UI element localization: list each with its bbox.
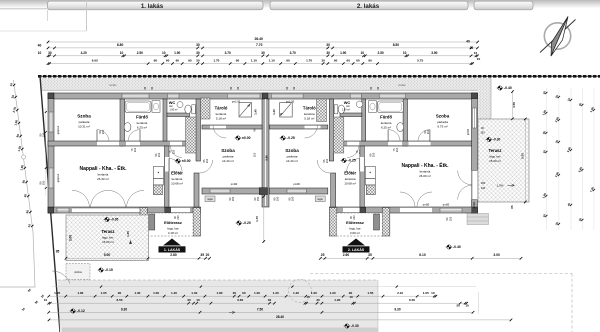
svg-text:1.30: 1.30 <box>191 291 197 295</box>
svg-text:Előtér: Előtér <box>344 171 356 176</box>
svg-text:35: 35 <box>200 253 204 257</box>
svg-text:90: 90 <box>154 58 158 62</box>
svg-text:2. LAKÁS: 2. LAKÁS <box>348 247 365 252</box>
svg-text:1.70: 1.70 <box>306 58 312 62</box>
svg-text:pm90: pm90 <box>467 128 470 135</box>
svg-text:8.50: 8.50 <box>116 298 122 302</box>
svg-text:-0.30: -0.30 <box>351 324 359 328</box>
svg-text:1.00: 1.00 <box>311 291 317 295</box>
svg-text:6.10: 6.10 <box>419 253 426 257</box>
svg-text:15.00 m²: 15.00 m² <box>489 159 501 163</box>
svg-text:30: 30 <box>196 43 200 47</box>
svg-text:40: 40 <box>466 39 470 43</box>
svg-text:8.80: 8.80 <box>117 43 124 47</box>
svg-text:1.90: 1.90 <box>340 51 346 55</box>
svg-text:-0.25: -0.25 <box>348 159 356 163</box>
svg-text:6.25 m²: 6.25 m² <box>137 126 147 130</box>
svg-text:parketta: parketta <box>223 155 234 159</box>
svg-text:1.90: 1.90 <box>174 51 180 55</box>
svg-text:30: 30 <box>326 51 330 55</box>
svg-text:pm90: pm90 <box>231 182 238 186</box>
svg-text:Szoba: Szoba <box>221 148 235 153</box>
svg-text:180: 180 <box>481 181 486 185</box>
svg-text:tégla: tégla <box>318 198 324 201</box>
svg-text:±0.00: ±0.00 <box>242 136 251 140</box>
svg-text:1.05: 1.05 <box>54 291 60 295</box>
svg-text:pm90: pm90 <box>472 201 476 208</box>
svg-text:3.69 m²: 3.69 m² <box>350 231 360 235</box>
svg-text:-0.40: -0.40 <box>504 86 512 90</box>
svg-text:150: 150 <box>291 196 295 201</box>
svg-text:10: 10 <box>474 51 478 55</box>
svg-text:150: 150 <box>448 216 452 221</box>
svg-text:30: 30 <box>196 58 200 62</box>
svg-text:60: 60 <box>166 58 170 62</box>
svg-text:10: 10 <box>44 298 48 302</box>
svg-text:150: 150 <box>42 180 46 185</box>
svg-text:10: 10 <box>306 295 310 299</box>
svg-text:2. lakás: 2. lakás <box>357 3 380 10</box>
svg-text:WC: WC <box>344 100 351 105</box>
svg-text:1.90: 1.90 <box>334 298 340 302</box>
svg-text:fagy. ker: fagy. ker <box>489 155 500 159</box>
svg-text:1. lakás: 1. lakás <box>141 3 164 10</box>
svg-text:1.00: 1.00 <box>254 291 260 295</box>
svg-text:Nappali - Kha. - Étk.: Nappali - Kha. - Étk. <box>402 161 450 169</box>
svg-text:10: 10 <box>162 51 166 55</box>
svg-text:30: 30 <box>233 291 237 295</box>
svg-text:tégla: tégla <box>208 198 214 201</box>
svg-text:9.30: 9.30 <box>394 307 400 311</box>
svg-text:9.75 m²: 9.75 m² <box>437 125 447 129</box>
svg-text:5.18 m²: 5.18 m² <box>216 117 226 121</box>
svg-text:1.10: 1.10 <box>251 58 257 62</box>
svg-text:-0.40: -0.40 <box>453 245 461 249</box>
svg-text:20: 20 <box>206 253 210 257</box>
svg-text:6.50: 6.50 <box>409 298 415 302</box>
svg-text:25: 25 <box>321 253 325 257</box>
svg-text:10.31 m²: 10.31 m² <box>78 125 90 129</box>
svg-text:7.50: 7.50 <box>257 307 263 311</box>
svg-text:5.00: 5.00 <box>521 153 525 159</box>
svg-text:kerámia: kerámia <box>137 121 148 125</box>
svg-text:210: 210 <box>353 215 356 220</box>
svg-text:30: 30 <box>196 51 200 55</box>
svg-text:-0.25: -0.25 <box>287 136 295 140</box>
svg-text:15.00 m²: 15.00 m² <box>102 240 114 244</box>
svg-text:1.05: 1.05 <box>101 291 107 295</box>
svg-text:1.40: 1.40 <box>254 109 258 115</box>
svg-text:10: 10 <box>349 295 353 299</box>
svg-text:fagy. ker.: fagy. ker. <box>102 236 114 240</box>
svg-text:10: 10 <box>196 298 200 302</box>
svg-text:parketta: parketta <box>437 120 448 124</box>
svg-text:9.30: 9.30 <box>121 307 127 311</box>
svg-text:210: 210 <box>177 215 180 220</box>
svg-text:28.40: 28.40 <box>276 315 284 319</box>
svg-text:pm90: pm90 <box>443 202 450 206</box>
svg-text:60: 60 <box>242 291 246 295</box>
svg-text:-0.30: -0.30 <box>493 138 500 142</box>
svg-text:WC: WC <box>169 100 176 105</box>
svg-text:3.90: 3.90 <box>264 155 268 161</box>
svg-text:30: 30 <box>261 51 265 55</box>
svg-text:95: 95 <box>334 58 338 62</box>
svg-text:Szoba: Szoba <box>285 148 299 153</box>
svg-text:14.43 m²: 14.43 m² <box>222 159 234 163</box>
svg-text:30: 30 <box>456 304 460 308</box>
svg-text:210: 210 <box>205 158 209 163</box>
svg-text:3.60: 3.60 <box>237 298 243 302</box>
svg-text:3.70: 3.70 <box>290 51 296 55</box>
svg-text:60: 60 <box>176 58 180 62</box>
svg-text:3.90: 3.90 <box>431 51 437 55</box>
svg-text:Tároló: Tároló <box>215 106 228 111</box>
svg-text:1.10: 1.10 <box>269 58 275 62</box>
svg-text:90: 90 <box>236 58 240 62</box>
svg-text:Szoba: Szoba <box>436 114 450 119</box>
svg-text:4.18 m²: 4.18 m² <box>168 231 178 235</box>
svg-text:210: 210 <box>325 158 329 163</box>
svg-text:2.60: 2.60 <box>343 253 350 257</box>
svg-text:10: 10 <box>361 51 365 55</box>
svg-text:90: 90 <box>368 58 372 62</box>
svg-text:150: 150 <box>256 196 260 201</box>
svg-text:210: 210 <box>426 129 430 134</box>
svg-text:1. LAKÁS: 1. LAKÁS <box>164 247 181 252</box>
svg-text:pm1 90: pm1 90 <box>286 101 295 104</box>
svg-text:4.20: 4.20 <box>81 51 87 55</box>
svg-text:1.20: 1.20 <box>293 291 299 295</box>
svg-text:10: 10 <box>120 51 124 55</box>
svg-text:5.18 m²: 5.18 m² <box>304 117 314 121</box>
svg-text:210: 210 <box>133 147 137 152</box>
svg-text:1,5%: 1,5% <box>497 183 504 187</box>
svg-text:-0.05: -0.05 <box>111 218 118 222</box>
svg-text:40: 40 <box>38 44 42 48</box>
svg-text:30: 30 <box>187 298 191 302</box>
svg-text:4.55: 4.55 <box>512 102 516 108</box>
svg-text:Nappali - Kha. - Étk.: Nappali - Kha. - Étk. <box>80 164 128 172</box>
svg-text:1.40: 1.40 <box>272 109 276 115</box>
svg-text:26.00 m²: 26.00 m² <box>419 174 431 178</box>
svg-text:kerámia: kerámia <box>381 121 392 125</box>
svg-text:1.80: 1.80 <box>216 291 222 295</box>
svg-text:60: 60 <box>356 58 360 62</box>
svg-text:-0.15: -0.15 <box>105 268 113 272</box>
svg-text:1.30: 1.30 <box>330 291 336 295</box>
svg-text:2.80: 2.80 <box>170 253 177 257</box>
svg-text:10.68 m²: 10.68 m² <box>344 182 356 186</box>
svg-text:1.30: 1.30 <box>134 291 140 295</box>
svg-text:35: 35 <box>368 253 372 257</box>
svg-text:parketta: parketta <box>287 155 298 159</box>
svg-text:5.75: 5.75 <box>417 58 423 62</box>
svg-text:210: 210 <box>372 152 376 157</box>
svg-text:3.00: 3.00 <box>69 235 73 241</box>
svg-text:10: 10 <box>38 51 42 55</box>
svg-text:95: 95 <box>56 250 60 254</box>
svg-text:210: 210 <box>253 152 257 157</box>
svg-text:1.45: 1.45 <box>126 231 130 237</box>
svg-text:Tároló: Tároló <box>303 106 316 111</box>
svg-text:1.30: 1.30 <box>273 291 279 295</box>
svg-text:Előterasz: Előterasz <box>346 220 364 225</box>
svg-text:30: 30 <box>268 298 272 302</box>
svg-text:10: 10 <box>465 304 469 308</box>
svg-text:95: 95 <box>188 58 192 62</box>
svg-text:2.50: 2.50 <box>137 51 143 55</box>
svg-text:Terasz: Terasz <box>102 229 115 234</box>
svg-text:3.70: 3.70 <box>225 51 231 55</box>
svg-text:fagy. kar: fagy. kar <box>349 227 360 231</box>
svg-text:240: 240 <box>481 186 486 190</box>
svg-text:10: 10 <box>477 57 481 61</box>
svg-text:fagy. kar: fagy. kar <box>167 227 178 231</box>
svg-text:gépcső: gépcső <box>56 173 60 182</box>
svg-text:kerítés: kerítés <box>110 84 118 87</box>
svg-text:1.70: 1.70 <box>213 58 219 62</box>
svg-text:Fürdő: Fürdő <box>380 115 392 120</box>
svg-text:2.10: 2.10 <box>397 291 403 295</box>
svg-text:Terasz: Terasz <box>489 148 502 153</box>
svg-text:90: 90 <box>286 58 290 62</box>
svg-text:kerámia: kerámia <box>172 177 183 181</box>
svg-text:210: 210 <box>395 147 399 152</box>
svg-text:30: 30 <box>470 46 474 50</box>
svg-text:210: 210 <box>157 152 161 157</box>
svg-text:5.00: 5.00 <box>104 253 111 257</box>
svg-text:30: 30 <box>316 298 320 302</box>
svg-text:150: 150 <box>231 196 235 201</box>
svg-text:-0.20: -0.20 <box>243 221 251 225</box>
svg-text:6.25 m²: 6.25 m² <box>381 126 391 130</box>
svg-text:±0.00: ±0.00 <box>182 159 191 163</box>
svg-text:Előtér: Előtér <box>171 171 183 176</box>
svg-text:Előterasz: Előterasz <box>164 220 182 225</box>
svg-text:pm1 90: pm1 90 <box>232 101 241 104</box>
svg-text:1.80: 1.80 <box>77 291 83 295</box>
svg-text:10.68 m²: 10.68 m² <box>171 182 183 186</box>
svg-text:kerámia: kerámia <box>420 170 431 174</box>
svg-text:pm90: pm90 <box>423 202 430 206</box>
svg-text:150: 150 <box>480 131 485 135</box>
svg-text:14.43 m²: 14.43 m² <box>286 159 298 163</box>
svg-text:Szoba: Szoba <box>77 114 91 119</box>
svg-text:parketta: parketta <box>79 120 90 124</box>
svg-text:8.50: 8.50 <box>393 43 400 47</box>
svg-text:210: 210 <box>101 129 105 134</box>
svg-text:1.00: 1.00 <box>153 291 159 295</box>
svg-text:210: 210 <box>171 149 175 154</box>
svg-text:Fürdő: Fürdő <box>136 115 148 120</box>
svg-text:kerámia: kerámia <box>216 112 227 116</box>
svg-text:vizóra: vizóra <box>74 270 82 274</box>
svg-text:1.70: 1.70 <box>255 216 259 222</box>
svg-text:gépcső: gépcső <box>56 125 60 134</box>
svg-text:60: 60 <box>346 58 350 62</box>
svg-text:3.00: 3.00 <box>493 253 500 257</box>
svg-text:kerámia: kerámia <box>98 173 109 177</box>
svg-text:30: 30 <box>321 58 325 62</box>
svg-text:6.05: 6.05 <box>92 58 98 62</box>
svg-text:1.55: 1.55 <box>367 291 373 295</box>
svg-text:1.05: 1.05 <box>423 291 429 295</box>
svg-text:30: 30 <box>48 51 52 55</box>
svg-text:10: 10 <box>403 51 407 55</box>
svg-text:26.40: 26.40 <box>254 37 263 41</box>
svg-text:-0.12: -0.12 <box>77 309 85 313</box>
svg-text:30: 30 <box>326 43 330 47</box>
svg-text:kerámia: kerámia <box>304 112 315 116</box>
svg-text:10: 10 <box>431 291 435 295</box>
svg-text:90: 90 <box>118 291 122 295</box>
svg-text:1.90 m²: 1.90 m² <box>342 109 350 112</box>
svg-text:65: 65 <box>510 205 514 209</box>
svg-text:kerámia: kerámia <box>345 177 356 181</box>
svg-text:2.50: 2.50 <box>377 51 383 55</box>
svg-text:1.20: 1.20 <box>171 291 177 295</box>
svg-text:pm90: pm90 <box>293 182 300 186</box>
svg-text:150: 150 <box>276 196 280 201</box>
svg-text:1.90 m²: 1.90 m² <box>169 109 177 112</box>
svg-text:26.33 m²: 26.33 m² <box>97 177 109 181</box>
svg-text:7.70: 7.70 <box>256 43 263 47</box>
svg-text:kerítés: kerítés <box>399 84 407 87</box>
